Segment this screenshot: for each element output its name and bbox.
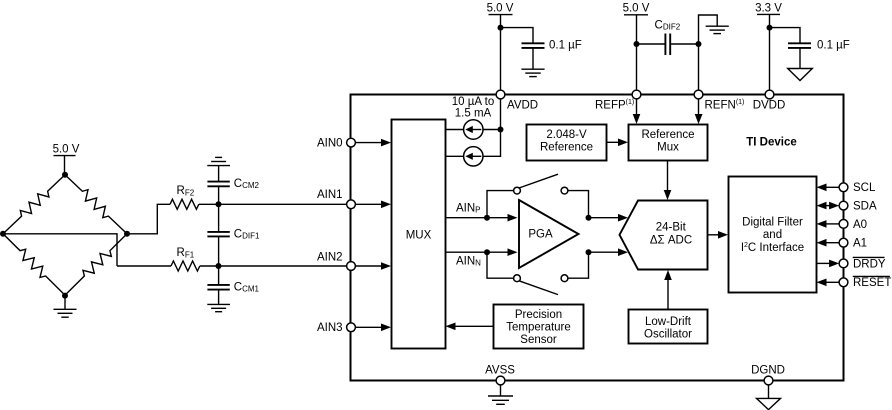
node PGA out N — [586, 249, 592, 255]
svg-text:AIN1: AIN1 — [317, 189, 343, 201]
TI device chip outline — [351, 95, 844, 381]
wire oscillator to ADC — [664, 270, 672, 310]
pin SCL — [839, 182, 876, 194]
capacitor CDIF1 — [207, 204, 260, 266]
wire A0 to digital filter — [817, 220, 840, 228]
wire temp sensor to MUX — [446, 323, 494, 331]
wire refmux to ADC — [664, 161, 672, 201]
svg-text:Reference: Reference — [641, 129, 694, 141]
svg-text:DVDD: DVDD — [753, 100, 786, 112]
digital filter I2C block — [729, 177, 817, 293]
resistor RF1 — [171, 247, 200, 271]
capacitor CCM2 — [207, 178, 259, 204]
svg-text:2.048-V: 2.048-V — [546, 129, 587, 141]
pin REFN — [694, 90, 744, 112]
pin RESET — [839, 276, 891, 289]
svg-text:Digital Filter: Digital Filter — [742, 216, 803, 228]
wire SDA bidirectional — [817, 202, 840, 210]
svg-text:and: and — [763, 229, 782, 241]
ground triangle DGND — [757, 385, 781, 410]
supply 5.0V REFP — [623, 3, 650, 91]
svg-text:0.1 µF: 0.1 µF — [817, 39, 850, 51]
svg-text:Mux: Mux — [657, 142, 679, 154]
wire REFP pin to refmux — [633, 99, 641, 124]
current source IDAC2 — [446, 130, 501, 167]
node AVDD decoupling — [498, 25, 504, 31]
node bridge left — [0, 231, 6, 237]
current source IDAC1 — [446, 120, 501, 139]
bridge resistor top-left — [0, 171, 68, 237]
IDAC label — [452, 96, 494, 120]
node AINP chopper — [484, 215, 490, 221]
node AIN1 junction — [216, 201, 222, 207]
svg-text:3.3 V: 3.3 V — [755, 3, 782, 15]
node AINN chopper — [484, 249, 490, 255]
supply 5.0V AVDD — [487, 3, 514, 91]
wire REFN pin — [698, 44, 700, 90]
wire chopper bottom right — [568, 252, 589, 278]
node AIN2 junction — [216, 263, 222, 269]
reference mux block — [629, 125, 708, 161]
switch chopper top — [514, 174, 568, 194]
svg-text:24-Bit: 24-Bit — [656, 222, 687, 234]
pin SDA — [839, 201, 877, 213]
wire AINN MUX to PGA — [446, 248, 518, 267]
wire RF1 to node — [200, 265, 219, 267]
wire chopper top left — [487, 191, 514, 218]
ground triangle DVDD cap — [788, 69, 813, 81]
svg-text:AVDD: AVDD — [507, 100, 538, 112]
bridge resistor bottom-right — [61, 230, 130, 299]
node REFN — [696, 41, 702, 47]
pin AVSS — [485, 364, 515, 385]
temperature sensor block — [494, 305, 584, 349]
wire node to AIN2 pin — [219, 265, 348, 267]
pin DRDY — [839, 257, 886, 270]
wire bridge left node to RF1 row — [3, 234, 117, 266]
capacitor CDIF2 — [637, 20, 699, 55]
MUX block — [392, 120, 446, 349]
ground below CCM1 — [207, 304, 230, 311]
wire chopper bottom left — [487, 252, 514, 278]
supply 5.0V bridge — [53, 144, 80, 175]
wire bridge right node to RF2 row — [127, 204, 170, 234]
svg-text:AIN0: AIN0 — [317, 137, 343, 149]
svg-text:A1: A1 — [853, 238, 867, 250]
svg-text:Reference: Reference — [540, 142, 593, 154]
svg-text:0.1 µF: 0.1 µF — [549, 39, 582, 51]
wire ADC to digital filter — [708, 231, 729, 239]
pin AVDD — [496, 90, 538, 112]
svg-text:5.0 V: 5.0 V — [623, 3, 650, 15]
svg-text:SDA: SDA — [853, 201, 877, 213]
capacitor CCM1 — [207, 266, 259, 304]
switch chopper bottom — [514, 275, 568, 295]
svg-text:AIN2: AIN2 — [317, 251, 343, 263]
svg-text:DRDY: DRDY — [853, 258, 886, 270]
capacitor 0.1uF AVDD — [522, 39, 582, 69]
pin AIN2 — [317, 251, 355, 270]
svg-text:1.5 mA: 1.5 mA — [455, 108, 492, 120]
reference 2.048V block — [527, 125, 607, 161]
wire REFN to ground — [699, 15, 718, 44]
capacitor 0.1uF DVDD — [788, 39, 850, 68]
wire DRDY from digital filter — [817, 260, 840, 268]
pin AIN3 — [317, 322, 355, 334]
svg-text:AVSS: AVSS — [485, 364, 515, 376]
ground AVDD cap — [521, 69, 544, 76]
node bridge right — [124, 231, 130, 237]
svg-text:Precision: Precision — [515, 309, 562, 321]
pin AIN0 — [317, 137, 355, 149]
wire node to AIN1 pin — [219, 203, 348, 205]
svg-text:Oscillator: Oscillator — [644, 328, 692, 340]
wire RF2 to node — [199, 203, 219, 205]
svg-text:5.0 V: 5.0 V — [53, 144, 80, 156]
svg-text:PGA: PGA — [528, 228, 553, 240]
svg-text:AIN3: AIN3 — [317, 322, 343, 334]
node PGA out P — [586, 215, 592, 221]
svg-text:A0: A0 — [853, 219, 867, 231]
svg-text:RESET: RESET — [853, 277, 891, 289]
wire AIN2 to MUX — [355, 262, 391, 270]
svg-text:ΔΣ ADC: ΔΣ ADC — [650, 234, 692, 246]
pin DVDD — [753, 90, 786, 112]
wire RF1 lead — [117, 265, 171, 267]
wire chopper top right — [568, 191, 589, 218]
ADC 24-bit block — [620, 201, 708, 270]
oscillator block — [629, 310, 708, 344]
node IDAC — [498, 127, 504, 133]
pin REFP — [595, 90, 641, 112]
svg-text:TI Device: TI Device — [746, 136, 797, 148]
ground AVSS — [488, 385, 513, 404]
svg-text:5.0 V: 5.0 V — [487, 3, 514, 15]
wire SCL to digital filter — [817, 184, 840, 192]
node bridge bottom — [62, 293, 68, 299]
wire to AVDD cap — [501, 28, 534, 43]
wire REFN pin to refmux — [695, 99, 703, 124]
wire AIN1 to MUX — [355, 201, 391, 209]
pin A1 — [839, 238, 867, 250]
wire RESET to digital filter — [817, 279, 840, 287]
pin DGND — [751, 364, 785, 385]
wire AIN3 to MUX — [355, 324, 391, 332]
svg-text:Low-Drift: Low-Drift — [645, 316, 692, 328]
supply 3.3V DVDD — [755, 3, 782, 91]
wire to DVDD cap — [770, 28, 801, 43]
wire AIN0 to MUX — [355, 139, 391, 147]
pin AIN1 — [317, 189, 355, 209]
resistor RF2 — [170, 185, 199, 209]
svg-text:10 µA to: 10 µA to — [452, 96, 494, 108]
svg-text:DGND: DGND — [751, 364, 785, 376]
bridge resistor bottom-left — [0, 230, 69, 299]
svg-text:Temperature: Temperature — [506, 322, 571, 334]
wire reference to refmux — [607, 139, 629, 147]
wire AINP MUX to PGA — [446, 202, 518, 221]
ground inverted above CCM2 — [207, 157, 230, 181]
op-amp PGA — [519, 200, 579, 268]
wire PGA out to ADC N — [589, 248, 629, 256]
svg-text:I2C Interface: I2C Interface — [741, 242, 804, 254]
svg-text:MUX: MUX — [406, 230, 432, 242]
ground bridge — [54, 296, 77, 318]
pin A0 — [839, 219, 867, 231]
svg-text:SCL: SCL — [853, 182, 876, 194]
node DVDD decoupling — [767, 25, 773, 31]
wire AVDD to IDAC — [500, 99, 502, 130]
wire A1 to digital filter — [817, 239, 840, 247]
node bridge top — [62, 172, 68, 178]
node REFP — [634, 41, 640, 47]
wire PGA out to ADC P — [589, 214, 629, 222]
ground REFN — [706, 26, 729, 33]
svg-text:Sensor: Sensor — [520, 334, 557, 346]
bridge resistor top-right — [62, 171, 131, 237]
